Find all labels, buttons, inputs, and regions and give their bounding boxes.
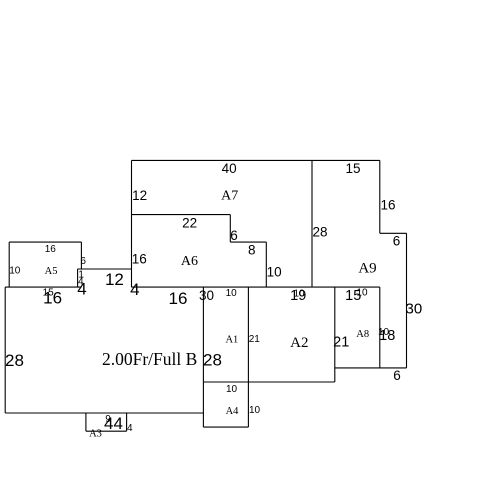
wire: A7/A6 divider (22 line) <box>132 214 231 216</box>
wire: master horizontal line <box>131 286 379 288</box>
wire: A6 step vertical (10) <box>265 242 267 287</box>
svg-text:A3: A3 <box>89 429 102 440</box>
wire: A9 left edge (28) <box>311 160 313 287</box>
svg-text:21: 21 <box>333 335 349 351</box>
svg-text:12: 12 <box>105 270 124 289</box>
wire: A4 bottom <box>203 426 248 428</box>
svg-text:A9: A9 <box>358 261 376 277</box>
wire: A5 top edge <box>9 241 81 243</box>
wire: A5 left edge <box>8 242 10 287</box>
svg-text:6: 6 <box>393 368 401 383</box>
svg-text:12: 12 <box>132 188 147 203</box>
wire: top edge of areas A7/A9 <box>132 159 380 161</box>
wire: A7/A6 left edge <box>131 160 133 287</box>
svg-text:15: 15 <box>345 288 361 304</box>
wire: A8 right edge <box>379 287 381 368</box>
wire: bump left vertical (4) <box>77 269 79 287</box>
svg-text:30: 30 <box>199 288 214 303</box>
svg-text:18: 18 <box>379 328 395 344</box>
svg-text:40: 40 <box>222 161 237 176</box>
svg-text:16: 16 <box>43 289 62 308</box>
svg-text:30: 30 <box>406 300 423 317</box>
svg-text:15: 15 <box>345 161 360 176</box>
wire: A3 bottom <box>86 430 127 432</box>
svg-text:A8: A8 <box>356 329 369 340</box>
svg-text:10: 10 <box>226 288 238 299</box>
wire: A6 step (8 line) <box>230 241 266 243</box>
svg-text:16: 16 <box>45 244 57 255</box>
svg-text:2.00Fr/Full B: 2.00Fr/Full B <box>102 349 197 369</box>
wire: A3 right edge <box>126 413 128 431</box>
wire: building top-left / A5 bottom <box>5 286 81 288</box>
wire: right step top (6) <box>380 232 407 234</box>
svg-text:16: 16 <box>169 289 188 308</box>
svg-text:16: 16 <box>380 198 395 213</box>
svg-text:28: 28 <box>203 351 222 370</box>
svg-text:21: 21 <box>249 334 261 345</box>
wire: A1/A4 right edge <box>247 287 249 427</box>
wire: right edge (30) <box>406 233 408 368</box>
svg-text:A1: A1 <box>225 334 238 345</box>
svg-text:6: 6 <box>393 233 401 248</box>
svg-text:10: 10 <box>267 265 282 280</box>
svg-text:10: 10 <box>9 265 21 276</box>
svg-text:4: 4 <box>77 280 86 299</box>
svg-text:A2: A2 <box>290 335 308 351</box>
svg-text:10: 10 <box>226 384 238 395</box>
svg-text:6: 6 <box>230 228 238 243</box>
svg-text:16: 16 <box>132 251 147 266</box>
wire: building bottom <box>5 412 203 414</box>
svg-text:10: 10 <box>249 405 261 416</box>
wire: bump top (12 line) <box>78 268 132 270</box>
wire: A5 right edge (6) <box>80 242 82 269</box>
svg-text:8: 8 <box>248 243 256 258</box>
svg-text:28: 28 <box>5 351 24 370</box>
svg-text:A4: A4 <box>226 406 240 417</box>
svg-text:A5: A5 <box>45 266 58 277</box>
wire: building right / A1 left edge <box>202 287 204 427</box>
wire: A9 right upper edge (16) <box>379 160 381 233</box>
wire: A1/A2 bottom <box>203 381 334 383</box>
svg-text:A7: A7 <box>221 189 238 204</box>
wire: A2 right / A8 left edge <box>334 287 336 382</box>
wire: building left edge <box>4 287 6 413</box>
svg-text:6: 6 <box>80 256 86 267</box>
wire: A8/A9 bottom <box>335 367 407 369</box>
svg-text:28: 28 <box>312 225 327 240</box>
svg-text:44: 44 <box>104 414 123 433</box>
svg-text:A6: A6 <box>181 254 198 269</box>
wire: A6 step vertical (6) <box>229 215 231 243</box>
svg-text:4: 4 <box>130 280 139 299</box>
wire: A3 left edge <box>85 413 87 431</box>
svg-text:4: 4 <box>127 423 133 434</box>
svg-text:22: 22 <box>182 215 197 230</box>
svg-text:19: 19 <box>290 288 306 304</box>
